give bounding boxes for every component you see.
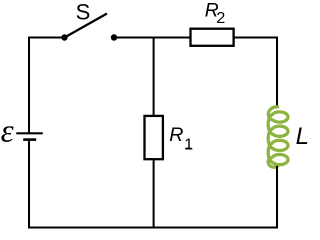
- battery EMF: long plate: [16, 132, 43, 134]
- wire: right branch lower (inductor to bottom-right corner): [276, 166, 278, 228]
- svg-text:R: R: [169, 124, 183, 146]
- wire: top middle (switch to R2): [114, 37, 190, 39]
- wire: bottom return: [28, 227, 278, 229]
- wire: R1 branch lower (R1 to bottom wire): [153, 160, 155, 228]
- switch S: right terminal node: [111, 34, 117, 40]
- resistor R2 body: [191, 29, 234, 46]
- svg-text:2: 2: [216, 10, 225, 27]
- svg-text:L: L: [296, 123, 308, 150]
- svg-text:S: S: [76, 0, 91, 25]
- wire: left branch bottom (battery to bottom-left corner): [28, 140, 30, 227]
- label R1 subscript serif foot: [185, 148, 191, 150]
- wire: left branch top (battery to top-left corner to switch): [28, 38, 65, 134]
- switch S: lever arm: [65, 14, 108, 38]
- inductor L coil: [268, 107, 288, 167]
- svg-text:ε: ε: [1, 114, 14, 150]
- switch S: left terminal node: [61, 34, 67, 40]
- battery EMF: short plate: [23, 138, 36, 141]
- resistor R1 body: [145, 116, 163, 159]
- svg-text:1: 1: [184, 136, 193, 153]
- wire: R1 branch upper (junction down to R1): [153, 37, 155, 116]
- wire: top right (R2 to top-right corner down to inductor): [235, 37, 279, 106]
